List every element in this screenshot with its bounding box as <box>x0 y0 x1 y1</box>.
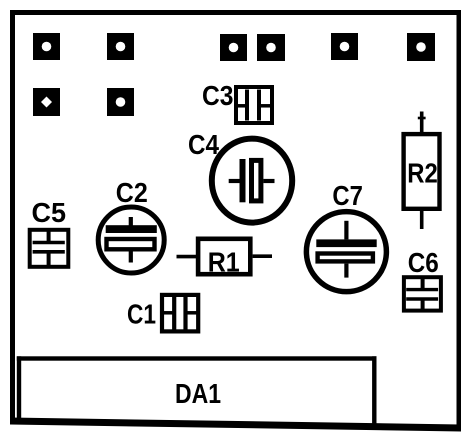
svg-text:C3: C3 <box>202 80 234 111</box>
svg-text:R2: R2 <box>407 158 438 189</box>
svg-text:C1: C1 <box>127 299 156 330</box>
svg-text:C2: C2 <box>116 177 148 208</box>
svg-text:C4: C4 <box>188 129 219 160</box>
svg-text:C6: C6 <box>408 247 439 278</box>
svg-text:DA1: DA1 <box>175 378 221 409</box>
svg-text:R1: R1 <box>208 247 240 278</box>
svg-text:C7: C7 <box>332 180 363 211</box>
svg-text:C5: C5 <box>32 197 67 228</box>
